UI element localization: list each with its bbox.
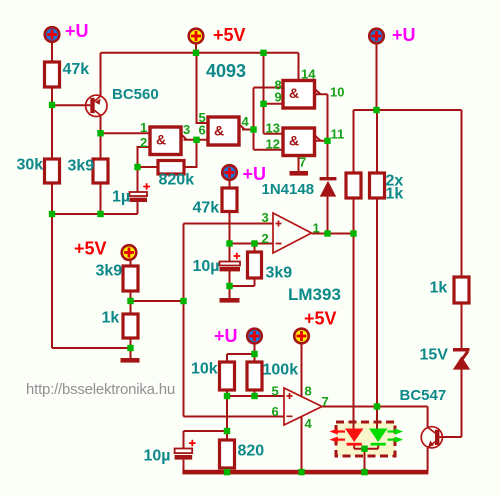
- node LED common cathode: [361, 446, 367, 452]
- svg-text:13: 13: [266, 121, 280, 136]
- svg-text:+5V: +5V: [213, 25, 246, 45]
- svg-text:100k: 100k: [263, 362, 299, 379]
- svg-text:&: &: [289, 133, 299, 149]
- power symbol +U middle: [222, 165, 237, 180]
- node 3k9 bottom row: [97, 211, 103, 217]
- svg-text:BC560: BC560: [112, 86, 159, 103]
- wire +U bot stem and 100k top x=254.5: [254, 344, 256, 362]
- node 30k top row: [49, 211, 55, 217]
- wire long feedback vertical x=183.5: [183, 224, 185, 417]
- wire comp2 pin8 +5V x=301.5: [301, 344, 303, 396]
- resistor 47k middle: [222, 188, 237, 212]
- wire gate4 output nose pin11: [315, 135, 328, 141]
- svg-text:10µ: 10µ: [144, 448, 171, 465]
- wire 820k right lead to gate1 output: [184, 140, 197, 167]
- svg-text:7: 7: [322, 394, 329, 409]
- gate U1A 4093: [150, 127, 181, 155]
- node base Q1: [49, 102, 55, 108]
- wire 1k pullup right column x=377: [376, 110, 378, 429]
- capacitor 1u electrolytic: [130, 192, 148, 196]
- capacitor 10u second: [175, 449, 193, 454]
- svg-text:&: &: [214, 123, 224, 139]
- node Q1 collector gate1 pin1: [97, 130, 103, 136]
- node +5V symbol rail: [193, 50, 199, 56]
- wire +U mid symbol stem to 47k: [229, 181, 231, 189]
- wire Q1 collector-emitter column x=100.5: [100, 53, 102, 214]
- svg-text:1µ: 1µ: [112, 189, 130, 206]
- wire 1u cap top lead x=137.5: [137, 167, 139, 192]
- svg-text:10µ: 10µ: [193, 258, 220, 275]
- svg-text:4093: 4093: [206, 61, 246, 81]
- wire 10k 820 column x=227: [226, 354, 228, 471]
- wire BC547 emitter to rail: [427, 448, 429, 471]
- wire 1u cap bottom lead: [137, 202, 139, 214]
- resistor 3k9 left: [93, 159, 108, 183]
- svg-text:&: &: [156, 132, 166, 148]
- svg-text:3k9: 3k9: [266, 265, 293, 282]
- svg-text:1: 1: [140, 120, 147, 135]
- transistor Q2 BC547: [421, 427, 442, 448]
- zener diode 15V: [453, 348, 470, 352]
- wire gate1 pin2: [138, 147, 151, 167]
- svg-text:3k9: 3k9: [68, 158, 95, 175]
- capacitor 10u first: [220, 262, 241, 266]
- node rail pins9-13: [260, 50, 266, 56]
- wire cap to 820 node y=431: [184, 430, 228, 432]
- node 100k bottom pin5: [251, 393, 257, 399]
- node divider tap: [127, 298, 133, 304]
- power symbol +5V top: [189, 29, 204, 44]
- power symbol +U bottom: [247, 329, 262, 344]
- ground below gate pin7: [290, 171, 309, 176]
- LED red: [345, 429, 364, 443]
- node feedback divider: [180, 298, 186, 304]
- svg-text:9: 9: [275, 90, 282, 105]
- wire 10k top row y=354: [227, 353, 255, 355]
- resistor 100k: [247, 362, 262, 390]
- node gate1 output: [193, 137, 199, 143]
- resistor 1k right branch: [454, 277, 469, 303]
- wire BC547 collector x=427.6: [427, 407, 429, 428]
- wire 820k left lead y=167: [138, 166, 159, 168]
- ground below 1k divider: [121, 358, 140, 363]
- node gate2 output pin4: [250, 126, 256, 132]
- wire divider tap y=301: [131, 300, 184, 302]
- node +U bottom tap: [251, 351, 257, 357]
- node comp2 out green LED: [374, 403, 380, 409]
- power symbol +5V bottom: [294, 329, 309, 344]
- svg-text:30k: 30k: [17, 157, 44, 174]
- node 1k divider bottom: [127, 345, 133, 351]
- wire divider column x=130.5: [130, 261, 132, 359]
- power symbol +5V mid-left: [122, 245, 137, 260]
- svg-text:4: 4: [305, 416, 313, 431]
- wire 10u cap bottom to ground: [229, 271, 231, 298]
- op-amp U2B LM393 comparator 2: [284, 388, 322, 425]
- wire Q1 base: [52, 104, 90, 106]
- wire 47k bottom to pin2 node: [229, 212, 231, 262]
- svg-text:+U: +U: [65, 21, 89, 41]
- svg-text:3: 3: [262, 210, 269, 225]
- node 47k mid pin2: [226, 240, 232, 246]
- gate U1B 4093: [208, 117, 239, 145]
- svg-text:1k: 1k: [430, 280, 448, 297]
- resistor 1k divider: [123, 314, 138, 338]
- resistor 10k: [220, 362, 235, 390]
- svg-text:LM393: LM393: [288, 285, 341, 304]
- svg-text:7: 7: [299, 155, 306, 170]
- wire top-right rail y=110: [354, 109, 462, 111]
- svg-text:&: &: [289, 85, 299, 101]
- resistor 3k9 divider: [123, 266, 138, 291]
- svg-text:3k9: 3k9: [96, 263, 123, 280]
- wire comp1 pin2 y=243.5: [230, 243, 274, 245]
- wire gate3 pin9: [264, 103, 284, 105]
- ground rail bottom thick: [182, 470, 428, 475]
- svg-text:6: 6: [199, 123, 206, 138]
- power symbol +U top-left: [45, 27, 60, 42]
- svg-text:2: 2: [262, 231, 269, 246]
- svg-text:8: 8: [305, 384, 312, 399]
- svg-text:1k: 1k: [102, 310, 120, 327]
- wire gate2 output nose: [239, 124, 254, 129]
- wire +5V top rail y=52.8: [101, 52, 299, 54]
- wire bottom-left horizontal y=348: [52, 347, 131, 349]
- svg-text:2: 2: [140, 135, 147, 150]
- svg-text:3: 3: [183, 122, 190, 137]
- svg-text:1N4148: 1N4148: [262, 181, 315, 198]
- wire 1k pullup left column x=353.5: [353, 110, 355, 429]
- LED module box: [336, 422, 395, 456]
- node 1u cap 820k left: [134, 164, 140, 170]
- transistor Q1 BC560: [86, 95, 107, 116]
- svg-text:820k: 820k: [159, 172, 195, 189]
- resistor 1k pullup right: [370, 173, 385, 198]
- wire right branch x=461.5: [461, 110, 463, 437]
- svg-text:+5V: +5V: [304, 309, 337, 329]
- wire +5V to gate2 pin5: [197, 53, 209, 123]
- wire diode anode to comp1 output node: [327, 197, 329, 234]
- svg-text:820: 820: [238, 443, 265, 460]
- svg-text:47k: 47k: [193, 200, 220, 217]
- svg-text:http://bsselektronika.hu: http://bsselektronika.hu: [26, 381, 175, 398]
- resistor 3k9 middle: [248, 252, 262, 278]
- wire comp1 pin3 y=223.5: [184, 223, 274, 225]
- wire gate3 pin8: [254, 87, 284, 89]
- node +U right rail: [373, 107, 379, 113]
- resistor 1k pullup left: [346, 173, 361, 198]
- svg-text:14: 14: [301, 67, 316, 82]
- node 10k bottom pin5: [224, 393, 230, 399]
- svg-text:11: 11: [331, 127, 345, 142]
- wire gate3 output nose pin10: [315, 89, 328, 95]
- node 10u cap bottom: [226, 283, 232, 289]
- svg-text:+U: +U: [214, 326, 238, 346]
- wire +U left rail x=52 top: [51, 43, 53, 349]
- wire gate4 pin7 to ground: [298, 156, 300, 172]
- wire gate4 pin13: [264, 133, 284, 135]
- power symbol +U top-right: [369, 29, 384, 44]
- svg-text:+5V: +5V: [74, 239, 107, 259]
- wire 3k9 bottom row y=286: [230, 285, 255, 287]
- gate U1D 4093: [283, 128, 315, 156]
- wire comp1 output y=233.5: [312, 233, 354, 235]
- gate U1C 4093: [283, 81, 315, 109]
- node gate4 output pin11: [324, 138, 330, 144]
- node rail 820: [224, 469, 230, 475]
- svg-text:1: 1: [313, 221, 320, 236]
- svg-text:10k: 10k: [191, 361, 218, 378]
- resistor 47k top-left: [45, 62, 60, 87]
- svg-text:15V: 15V: [420, 347, 449, 364]
- wire comp2 output y=406.5: [322, 406, 428, 408]
- wire 10u2 cap bottom lead: [183, 460, 185, 471]
- node 3k9 mid top: [251, 240, 257, 246]
- wire comp2 pin4 x=301.5: [301, 417, 303, 471]
- svg-text:5: 5: [272, 384, 279, 399]
- wire 3k9 taps x=254.5: [254, 244, 256, 287]
- node comp1 out pullup: [350, 230, 356, 236]
- svg-text:1k: 1k: [386, 186, 404, 203]
- svg-text:47k: 47k: [63, 61, 90, 78]
- svg-text:4: 4: [242, 114, 250, 129]
- node comp1 out diode: [324, 230, 330, 236]
- wire comp2 pin5 y=396: [227, 395, 284, 397]
- wire zener to BC547 base y=437: [439, 436, 461, 438]
- wire gate3 pin14 from rail: [298, 53, 300, 81]
- wire 100k bottom tap: [254, 390, 256, 396]
- wire LED cathodes row y=448.7: [354, 446, 378, 449]
- wire +5V symbol stem: [195, 44, 197, 53]
- svg-text:BC547: BC547: [400, 387, 447, 404]
- wire 10u2 cap top lead: [183, 431, 185, 449]
- svg-text:+U: +U: [392, 25, 416, 45]
- LED green: [369, 429, 388, 443]
- wire gate4 pin12: [254, 149, 284, 151]
- svg-text:10: 10: [330, 85, 344, 100]
- diode D1 1N4148: [320, 177, 337, 180]
- resistor 30k: [45, 159, 60, 183]
- node 820 top cap: [224, 428, 230, 434]
- op-amp U2A LM393 comparator 1: [273, 213, 312, 253]
- wire comp2 pin6 y=416.5: [184, 416, 285, 418]
- wire pins9-13 column x=263.5: [263, 53, 265, 134]
- ground below 10u middle: [220, 298, 240, 303]
- node gate3 pin9: [260, 101, 266, 107]
- resistor 820k horizontal: [158, 161, 184, 175]
- wire LED common cathode drop x=364.5: [364, 449, 366, 471]
- wire pins8-12 column x=253.5: [253, 88, 255, 150]
- wire gate1 output nose: [181, 134, 208, 140]
- wire gate1 pin1 y=133.2: [101, 132, 151, 134]
- svg-text:6: 6: [272, 404, 279, 419]
- wire 30k/3k9 bottom row y=214: [52, 213, 138, 215]
- wire +U right stem x=376.5: [376, 44, 378, 110]
- svg-text:12: 12: [266, 137, 280, 152]
- wire gates output column to diode: [327, 94, 329, 177]
- resistor 820: [220, 440, 235, 468]
- node rail pin4: [298, 469, 304, 475]
- node rail LED: [361, 469, 367, 475]
